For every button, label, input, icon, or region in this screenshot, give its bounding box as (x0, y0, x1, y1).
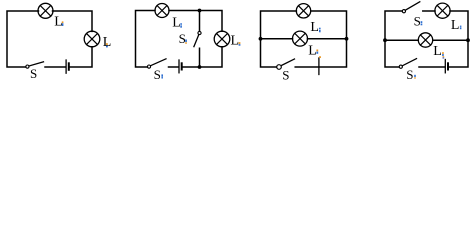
svg-text:L: L (451, 18, 460, 33)
svg-text:S: S (154, 67, 161, 82)
svg-text:S: S (30, 66, 37, 81)
svg-text:L: L (231, 33, 240, 48)
svg-text:S: S (406, 67, 413, 82)
svg-text:S: S (414, 13, 421, 28)
svg-text:S: S (179, 31, 186, 46)
svg-text:L: L (433, 44, 442, 59)
svg-text:S: S (282, 67, 289, 82)
svg-text:L: L (172, 15, 181, 30)
svg-text:L: L (308, 44, 317, 59)
svg-text:L: L (103, 35, 112, 50)
svg-text:L: L (310, 20, 319, 35)
svg-text:L: L (54, 15, 63, 30)
